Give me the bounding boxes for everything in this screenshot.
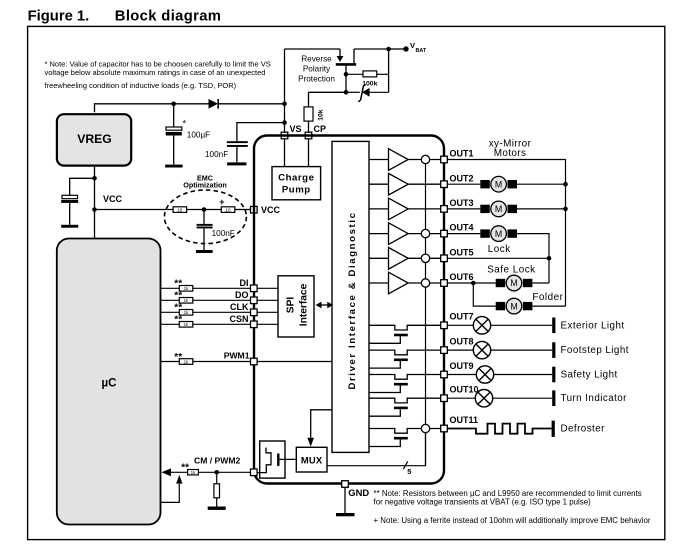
- label EMC Optimization: [183, 173, 227, 189]
- terminal bar OUT9: [552, 367, 555, 383]
- wire folder branch: [473, 283, 565, 306]
- svg-text:DO: DO: [235, 290, 249, 300]
- wire OUT3: [447, 208, 565, 210]
- svg-text:5: 5: [407, 467, 411, 476]
- node VS-diode junction: [282, 102, 287, 107]
- microcontroller uC: [57, 239, 161, 525]
- pin CM/PWM2: [251, 469, 258, 476]
- regulator VREG: [57, 114, 131, 165]
- transistor output DMOS OUT10: [369, 398, 441, 416]
- svg-text:**: **: [174, 291, 182, 302]
- wire pin CSN to SPI: [257, 323, 278, 325]
- svg-text:Turn Indicator: Turn Indicator: [561, 393, 628, 404]
- pin VS: [281, 132, 288, 139]
- svg-text:Lock: Lock: [488, 244, 511, 255]
- svg-text:OUT6: OUT6: [450, 272, 474, 282]
- svg-text:10: 10: [177, 208, 182, 213]
- block Charge Pump: [272, 167, 321, 200]
- resistor series PWM1: [174, 352, 193, 365]
- lamp OUT7 Exterior Light: [473, 317, 490, 334]
- svg-text:Figure 1.: Figure 1.: [28, 9, 90, 25]
- svg-text:Folder: Folder: [532, 292, 563, 303]
- svg-text:MUX: MUX: [301, 455, 323, 466]
- svg-text:100µF: 100µF: [187, 131, 210, 140]
- EMC optimization ellipse: [164, 190, 246, 244]
- svg-text:100nF: 100nF: [212, 229, 235, 238]
- svg-text:1k: 1k: [184, 286, 189, 291]
- driver buffer triangle OUT4: [369, 223, 441, 245]
- wire OUT4: [447, 234, 549, 283]
- current sense tap circle OUT11: [421, 424, 429, 432]
- svg-text:DI: DI: [240, 278, 249, 288]
- svg-text:**: **: [174, 315, 182, 326]
- svg-text:OUT11: OUT11: [450, 415, 479, 425]
- pin OUT9: [441, 371, 448, 378]
- label Reverse Polarity Protection: [298, 55, 335, 84]
- transistor Q1 reverse polarity MOSFET: [336, 49, 389, 64]
- svg-text:Defroster: Defroster: [561, 424, 606, 435]
- svg-text:1k: 1k: [184, 310, 189, 315]
- transistor output DMOS OUT9: [369, 375, 441, 393]
- capacitor C1 100uF: [166, 104, 210, 165]
- lamp OUT9 Safety Light: [476, 366, 493, 383]
- ground below C1: [165, 165, 182, 168]
- wire to VBAT terminal: [389, 48, 405, 50]
- node gate-resistor junction: [344, 72, 349, 77]
- transistor output DMOS OUT7: [369, 325, 441, 343]
- wire pin DO to SPI: [257, 299, 278, 301]
- pin OUT8: [441, 347, 448, 354]
- capacitor C2 100nF at VS: [205, 123, 285, 163]
- pin OUT5: [441, 255, 448, 262]
- capacitor C3 (uC supply): [61, 178, 94, 225]
- svg-text:CLK: CLK: [230, 302, 249, 312]
- svg-text:µC: µC: [102, 378, 117, 390]
- wire OUT10: [447, 397, 552, 399]
- pin OUT1: [441, 156, 448, 163]
- svg-text:Driver Interface & Diagnostic: Driver Interface & Diagnostic: [347, 211, 358, 389]
- current sense tap circle OUT1: [421, 155, 429, 163]
- wire PWM1 to driver: [257, 361, 332, 363]
- svg-text:Reverse: Reverse: [301, 55, 332, 64]
- ground below CM resistor: [208, 507, 226, 510]
- svg-text:**: **: [174, 352, 182, 363]
- current sense tap circle OUT4: [421, 229, 429, 237]
- svg-text:1k: 1k: [184, 322, 189, 327]
- svg-text:1k: 1k: [191, 470, 196, 475]
- wire uC PWM1 line: [161, 361, 251, 363]
- svg-text:1k: 1k: [184, 298, 189, 303]
- wire OUT6: [447, 282, 549, 284]
- node VBAT terminal: [403, 46, 408, 51]
- svg-text:M: M: [510, 301, 517, 311]
- pin VCC: [251, 206, 258, 213]
- wire uC DO line: [161, 299, 251, 301]
- svg-text:Safe Lock: Safe Lock: [487, 264, 535, 275]
- wire OUT7: [447, 324, 552, 326]
- wire diode to VS node: [218, 103, 284, 105]
- wire uC feedback arrow up: [161, 475, 183, 503]
- svg-text:Optimization: Optimization: [183, 181, 227, 190]
- wire VREG bottom to uC: [94, 165, 96, 238]
- svg-text:M: M: [495, 204, 502, 214]
- pin GND: [342, 481, 349, 488]
- svg-text:**: **: [174, 303, 182, 314]
- svg-text:Polarity: Polarity: [303, 65, 331, 74]
- svg-text:VS: VS: [290, 124, 302, 134]
- svg-text:GND: GND: [348, 487, 369, 498]
- label xy-Mirror Motors: [489, 138, 532, 159]
- motor M2 mirror y: [480, 201, 517, 217]
- node left cap tap: [92, 176, 97, 181]
- wire OUT1 to mirror common rail: [447, 160, 565, 307]
- block SPI Interface: [278, 276, 314, 337]
- svg-text:1k: 1k: [184, 359, 189, 364]
- svg-text:Charge: Charge: [278, 172, 314, 183]
- svg-text:M: M: [495, 229, 502, 239]
- wire OUT11 square wave Defroster: [447, 424, 551, 434]
- wire CM/PWM2 line with arrow into uC: [162, 468, 188, 476]
- driver buffer triangle OUT2: [369, 173, 441, 195]
- svg-text:10: 10: [226, 208, 231, 213]
- resistor series CLK: [174, 303, 193, 316]
- resistor EMC ferrite 1: [173, 207, 187, 213]
- wire VBAT branch vertical: [388, 49, 390, 92]
- svg-text:CSN: CSN: [229, 314, 248, 324]
- resistor EMC ferrite 2: [219, 197, 235, 212]
- transistor output DMOS OUT11: [369, 429, 441, 447]
- svg-text:100k: 100k: [362, 80, 377, 87]
- wire VS vertical: [284, 49, 286, 132]
- pin OUT10: [441, 395, 448, 402]
- pin OUT6: [441, 280, 448, 287]
- pin OUT2: [441, 181, 448, 188]
- svg-text:Footstep Light: Footstep Light: [561, 345, 629, 356]
- block MUX: [296, 447, 327, 472]
- pin CSN: [251, 321, 258, 328]
- wire resistor to CM pin: [198, 471, 250, 473]
- label V_BAT: [410, 41, 427, 54]
- svg-text:VCC: VCC: [261, 205, 281, 215]
- current sense tap circle OUT6: [421, 279, 429, 287]
- driver buffer triangle OUT3: [369, 198, 441, 220]
- wire pin DI to SPI: [257, 287, 278, 289]
- wire uC CSN line: [161, 323, 251, 325]
- pin CP: [305, 132, 312, 139]
- lamp OUT10 Turn Indicator: [475, 390, 492, 407]
- svg-text:freewheeling condition of indu: freewheeling condition of inductive load…: [45, 81, 237, 90]
- svg-text:OUT9: OUT9: [450, 361, 474, 371]
- svg-text:SPI: SPI: [286, 297, 297, 314]
- wire uC DI line: [161, 287, 251, 289]
- svg-text:M: M: [510, 278, 517, 288]
- capacitor C4 100nF EMC: [197, 210, 235, 251]
- resistor pulldown CM: [214, 472, 220, 506]
- svg-text:voltage below absolute maximum: voltage below absolute maximum ratings i…: [45, 68, 266, 77]
- diode D1: [209, 99, 219, 109]
- svg-text:CM / PWM2: CM / PWM2: [194, 455, 241, 465]
- wire driver to MUX with arrow: [307, 410, 332, 447]
- node OUT2 rail junction: [563, 182, 568, 187]
- node CM pulldown tap: [214, 470, 219, 475]
- svg-text:Block diagram: Block diagram: [115, 9, 222, 25]
- node VBAT junction: [386, 47, 391, 52]
- pin DI: [251, 285, 258, 292]
- ground below C3: [61, 225, 78, 228]
- lamp OUT8 Footstep Light: [473, 341, 490, 358]
- pin OUT3: [441, 206, 448, 213]
- svg-text:OUT4: OUT4: [450, 223, 474, 233]
- pin OUT11: [441, 425, 448, 432]
- svg-text:for negative voltage transient: for negative voltage transients at VBAT …: [374, 498, 592, 507]
- terminal bar OUT10: [552, 390, 555, 406]
- node gate-zener junction: [344, 90, 349, 95]
- block Driver Interface & Diagnostic: [332, 141, 369, 452]
- svg-text:Interface: Interface: [299, 283, 310, 326]
- ground below C4: [196, 250, 213, 253]
- pin PWM1: [251, 358, 258, 365]
- svg-text:PWM1: PWM1: [224, 350, 250, 360]
- wire VREG top to supply rail: [95, 104, 209, 112]
- svg-text:VCC: VCC: [103, 194, 123, 204]
- wire OUT5: [447, 257, 549, 259]
- svg-text:CP: CP: [314, 124, 327, 134]
- svg-text:100nF: 100nF: [205, 150, 228, 159]
- wire OUT2: [447, 183, 565, 185]
- resistor series DI: [174, 279, 193, 292]
- svg-text:OUT2: OUT2: [450, 173, 474, 183]
- note text bottom: [374, 489, 651, 525]
- ground below C2: [227, 162, 246, 165]
- wire top rail to reverse polarity mosfet: [285, 49, 341, 56]
- wire pin CLK to SPI: [257, 311, 278, 313]
- driver buffer triangle OUT1: [369, 149, 441, 171]
- wire MUX output bus to monitor line: [327, 433, 426, 466]
- bus width slash 5: [403, 461, 411, 476]
- svg-text:+ Note: Using a ferrite instea: + Note: Using a ferrite instead of 10ohm…: [374, 516, 651, 525]
- wire VS pin to charge pump: [284, 139, 286, 167]
- node junction at 100uF tap: [171, 102, 176, 107]
- transistor output DMOS OUT8: [369, 350, 441, 368]
- transistor current-monitor output box: [254, 441, 296, 478]
- svg-text:OUT8: OUT8: [450, 336, 474, 346]
- wire OUT9: [447, 374, 552, 376]
- svg-text:Safety Light: Safety Light: [561, 370, 618, 381]
- svg-text:**: **: [174, 279, 182, 290]
- op-amp style driver IC box (L9950): [254, 136, 444, 484]
- node VS-100nF junction: [282, 120, 287, 125]
- motor M3 Lock: [480, 226, 517, 242]
- node OUT5 junction: [547, 256, 552, 261]
- svg-text:OUT1: OUT1: [450, 149, 474, 159]
- resistor series DO: [174, 291, 193, 304]
- node EMC cap tap: [202, 207, 207, 212]
- node OUT3 rail junction: [563, 207, 568, 212]
- note text top: [45, 59, 271, 89]
- svg-text:*: *: [183, 119, 187, 129]
- svg-text:Pump: Pump: [282, 185, 311, 196]
- wire gate drop: [345, 66, 347, 93]
- driver buffer triangle OUT5: [369, 248, 441, 270]
- wire current monitor bus vertical: [425, 164, 427, 466]
- svg-text:Motors: Motors: [494, 148, 527, 159]
- svg-text:**: **: [181, 462, 189, 473]
- svg-text:OUT5: OUT5: [450, 247, 474, 257]
- resistor series CM/PWM2: [181, 462, 198, 475]
- pin CLK: [251, 309, 258, 316]
- current sense tap circle OUT5: [421, 254, 429, 262]
- terminal bar OUT7: [552, 318, 555, 334]
- terminal bar OUT11: [552, 421, 555, 437]
- wire CP branch: [309, 92, 347, 107]
- pin DO: [251, 297, 258, 304]
- wire SPI to driver double arrow: [316, 302, 334, 308]
- motor M5 Folder: [496, 298, 533, 314]
- svg-text:M: M: [495, 179, 502, 189]
- wire OUT8: [447, 349, 552, 351]
- wire CP pin to charge pump: [308, 139, 310, 167]
- resistor series CSN: [174, 315, 193, 328]
- svg-text:10k: 10k: [318, 109, 325, 121]
- resistor 100k: [346, 71, 389, 88]
- pin OUT4: [441, 230, 448, 237]
- wire VCC rail: [95, 209, 174, 211]
- zener diode Z1: [346, 84, 389, 101]
- svg-text:OUT7: OUT7: [450, 312, 474, 322]
- terminal bar OUT8: [552, 342, 555, 358]
- ground below GND pin: [336, 487, 355, 516]
- wire to VCC pin: [235, 209, 251, 211]
- title: Figure 1. Block diagram: [28, 9, 222, 25]
- node OUT6 folder tap: [471, 281, 476, 286]
- svg-text:BAT: BAT: [416, 48, 427, 54]
- svg-text:+: +: [219, 197, 224, 207]
- node VCC tap: [92, 207, 97, 212]
- svg-text:VREG: VREG: [77, 132, 112, 146]
- driver buffer triangle OUT6: [369, 272, 441, 294]
- svg-text:OUT3: OUT3: [450, 198, 474, 208]
- svg-text:Exterior Light: Exterior Light: [561, 320, 625, 331]
- pin OUT7: [441, 322, 448, 329]
- motor M4 Safe Lock: [496, 275, 533, 291]
- svg-text:Protection: Protection: [298, 75, 335, 84]
- svg-text:OUT10: OUT10: [450, 385, 479, 395]
- wire between EMC resistors: [187, 209, 222, 211]
- wire uC CLK line: [161, 311, 251, 313]
- motor M1 mirror x: [480, 176, 517, 192]
- resistor 10k: [304, 107, 325, 132]
